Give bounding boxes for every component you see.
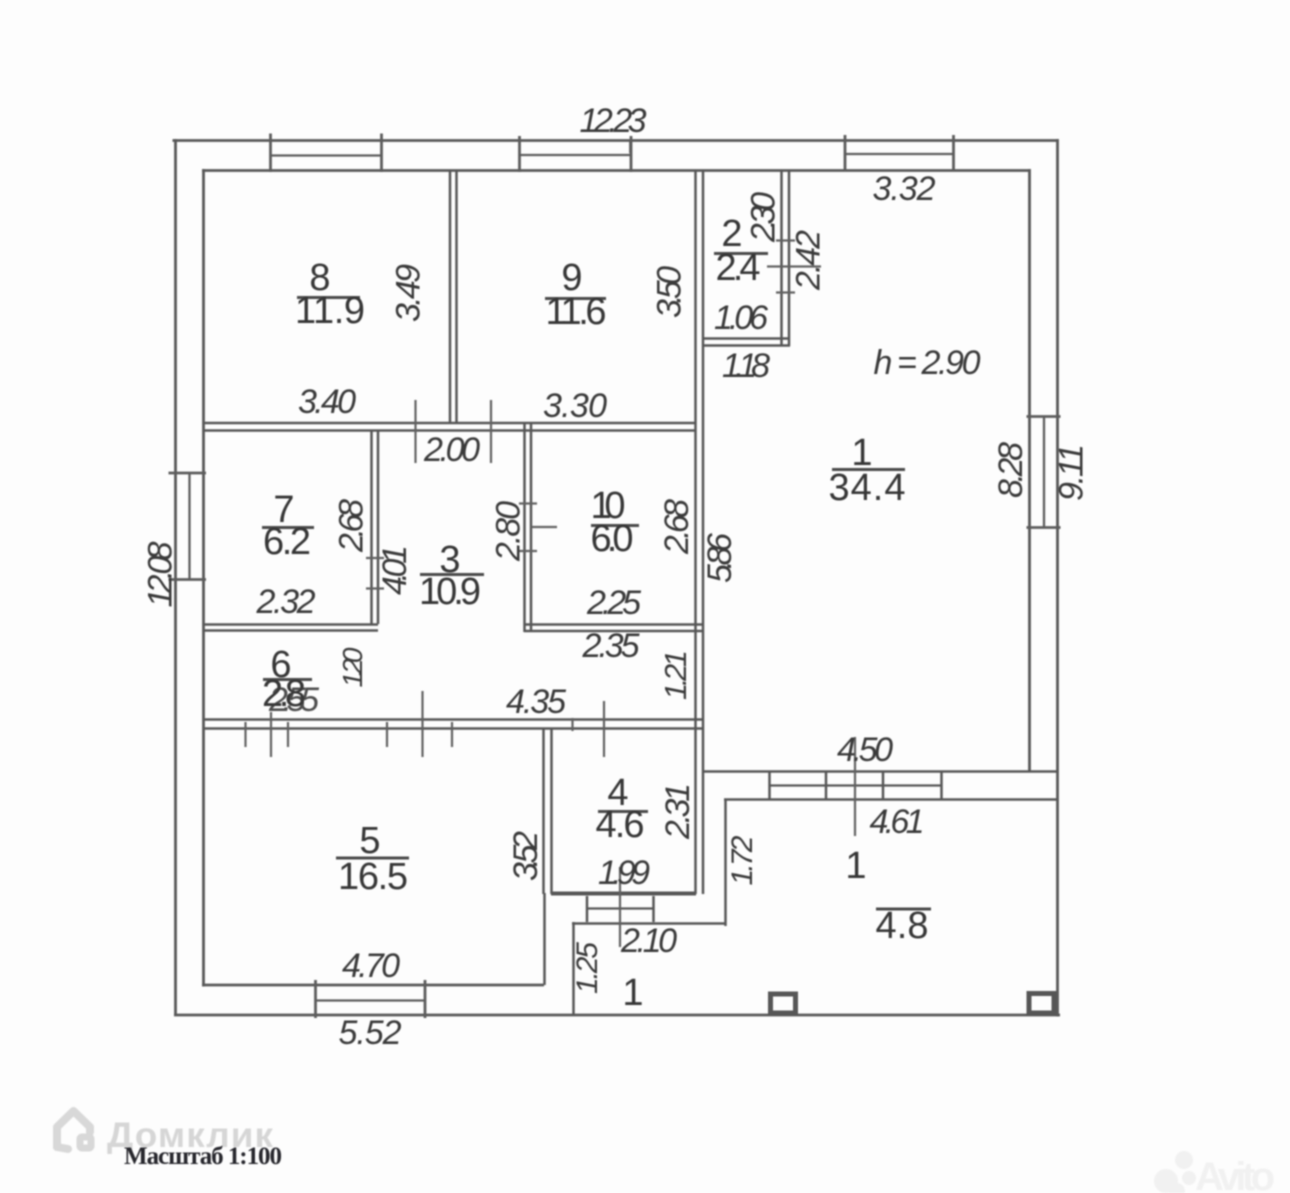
room7 label [262, 489, 314, 563]
svg-text:1.25: 1.25 [571, 942, 604, 994]
svg-text:12.08: 12.08 [142, 541, 180, 607]
svg-text:1.21: 1.21 [658, 650, 693, 700]
extension line room6 [270, 712, 272, 757]
wall room10 bottom [524, 625, 703, 632]
wall rooms8-9 bottom (double) [203, 423, 696, 431]
wall corridor bottom [203, 720, 703, 729]
extension line room4 window [619, 867, 621, 947]
svg-text:1: 1 [845, 845, 866, 887]
wall inner right [1028, 169, 1031, 772]
svg-text:11.6: 11.6 [546, 291, 607, 333]
svg-text:1.72: 1.72 [726, 835, 759, 885]
svg-text:3.40: 3.40 [298, 383, 356, 421]
svg-text:Avito: Avito [1195, 1155, 1275, 1193]
window top-left W1 [270, 134, 382, 173]
porch area 4.8 [876, 905, 932, 947]
wall inner top [202, 169, 1031, 172]
extension line corridor left [421, 691, 423, 757]
svg-text:2.4: 2.4 [716, 247, 761, 289]
porch post right [1029, 994, 1054, 1014]
svg-text:4.6: 4.6 [596, 804, 645, 846]
wall rooms8-9 divider [450, 170, 457, 423]
window right W5 [1027, 416, 1061, 528]
svg-text:3.30: 3.30 [543, 387, 607, 425]
svg-text:2.42: 2.42 [790, 230, 828, 291]
wall inner left [202, 169, 205, 987]
svg-text:2.68: 2.68 [333, 499, 371, 553]
room3 label [419, 539, 484, 613]
room5 label [336, 820, 409, 898]
room2 label [714, 213, 768, 289]
extension lines door 2.00 [416, 400, 492, 463]
svg-text:2.31: 2.31 [659, 783, 697, 840]
svg-text:2.80: 2.80 [490, 501, 528, 562]
svg-text:8.28: 8.28 [992, 442, 1030, 498]
window room4 bottom W8 [586, 896, 654, 922]
wall outer top [173, 139, 1059, 142]
wall room5 right lower [543, 893, 546, 985]
svg-text:h = 2.90: h = 2.90 [874, 344, 981, 382]
svg-text:1.20: 1.20 [337, 647, 368, 687]
window bottom W6 [315, 980, 425, 1018]
svg-text:5.52: 5.52 [339, 1014, 402, 1052]
svg-text:5.86: 5.86 [701, 533, 739, 583]
svg-text:1.18: 1.18 [722, 347, 770, 385]
wall porch left [572, 922, 575, 1016]
wall rooms5-4 divider [544, 728, 552, 894]
room10 label [591, 485, 640, 560]
watermark domclick icon [57, 1111, 91, 1149]
svg-text:1: 1 [622, 972, 643, 1014]
svg-text:3.32: 3.32 [873, 170, 936, 208]
wall porch step horizontal [572, 922, 726, 925]
svg-text:16.5: 16.5 [338, 856, 408, 898]
room6 label [262, 644, 319, 719]
room4 label [596, 772, 649, 846]
room9 label [545, 257, 607, 333]
svg-text:2.00: 2.00 [423, 431, 480, 469]
svg-text:4.70: 4.70 [342, 947, 400, 985]
svg-text:11.9: 11.9 [295, 290, 365, 332]
svg-text:1.99: 1.99 [598, 854, 650, 892]
wall closet bottom [703, 339, 790, 346]
svg-text:4.35: 4.35 [506, 683, 566, 721]
svg-text:12.23: 12.23 [580, 102, 647, 140]
svg-text:4.61: 4.61 [870, 803, 925, 841]
svg-text:4.8: 4.8 [876, 905, 929, 947]
svg-text:Масштаб 1:100: Масштаб 1:100 [124, 1143, 282, 1170]
svg-text:2.25: 2.25 [586, 584, 641, 622]
wall room10 left [525, 423, 532, 632]
window top-right W3 [845, 135, 954, 171]
window left W4 [169, 473, 207, 580]
ticks room10 left wall [519, 504, 557, 552]
ticks closet right wall [776, 241, 795, 293]
svg-text:6.0: 6.0 [591, 518, 634, 560]
wall porch step vertical [724, 799, 727, 926]
wall room1 bottom outer line [703, 770, 1058, 773]
wall long vertical room1 left [696, 170, 704, 894]
svg-text:2.35: 2.35 [582, 627, 640, 665]
leader room2 area [767, 265, 821, 267]
svg-text:4.50: 4.50 [837, 731, 893, 769]
svg-text:2.55: 2.55 [268, 681, 319, 719]
wall room4 bottom [551, 892, 696, 896]
svg-text:3.49: 3.49 [390, 264, 428, 322]
svg-text:6.2: 6.2 [263, 521, 311, 563]
svg-text:4.01: 4.01 [376, 545, 414, 595]
ticks corridor wall [246, 718, 573, 747]
window room1 bottom W7 [770, 771, 942, 800]
svg-text:34.4: 34.4 [829, 467, 906, 509]
wall outer left [174, 139, 177, 1016]
svg-text:3.52: 3.52 [507, 831, 545, 881]
wall outer bottom [174, 1014, 1060, 1017]
ticks room7 right wall [366, 558, 384, 589]
svg-text:2.10: 2.10 [620, 922, 677, 960]
wall room7 right [372, 431, 379, 624]
porch post left [771, 994, 796, 1013]
room1 label [829, 432, 906, 509]
wall closet right [782, 170, 790, 346]
window top-middle W2 [519, 136, 631, 172]
svg-text:9.11: 9.11 [1053, 444, 1091, 501]
svg-text:2.30: 2.30 [745, 192, 783, 243]
svg-text:3.50: 3.50 [651, 266, 689, 318]
extension line corridor right [603, 701, 605, 757]
watermark avito [1154, 1151, 1275, 1193]
room8 label [295, 257, 365, 332]
svg-text:1.06: 1.06 [714, 299, 768, 337]
svg-text:2.32: 2.32 [256, 583, 316, 621]
svg-text:10.9: 10.9 [419, 571, 481, 613]
wall room1 bottom inner line [724, 798, 1058, 801]
wall outer right [1056, 139, 1059, 1017]
svg-text:2.68: 2.68 [658, 499, 696, 555]
extension line porch window [854, 737, 856, 836]
wall inner bottom [202, 984, 544, 987]
wall rooms7-6 divider [203, 625, 378, 631]
